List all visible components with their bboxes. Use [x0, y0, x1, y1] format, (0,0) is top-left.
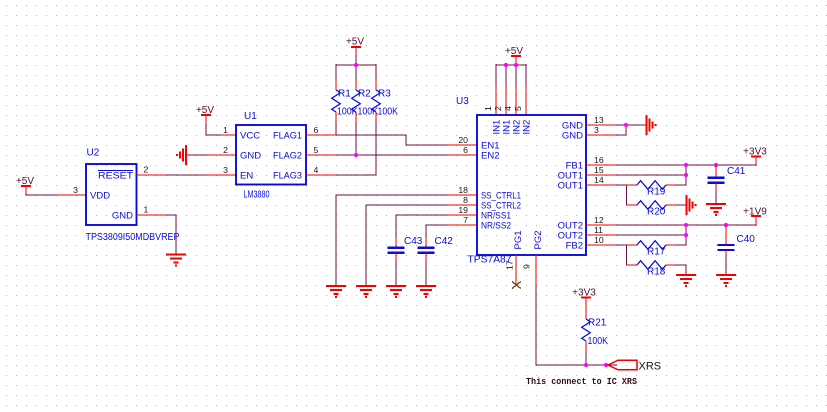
svg-text:R2: R2	[358, 89, 371, 100]
power +5V P3 (R1-R3 bus)	[346, 37, 364, 57]
junction XRS tap	[604, 363, 608, 367]
svg-text:OUT1: OUT1	[558, 180, 583, 191]
U3 PG1 pin17 stub	[515, 255, 517, 285]
svg-text:4: 4	[314, 165, 319, 175]
svg-text:GND: GND	[112, 210, 133, 221]
ground right-pointing (R20)	[687, 195, 696, 215]
svg-text:5: 5	[513, 106, 523, 111]
op-amp U1 LM3880 box	[236, 111, 306, 201]
svg-text:100K: 100K	[588, 336, 609, 347]
wire SS_CTRL2 pin8 to ground	[366, 205, 477, 286]
svg-text:R20: R20	[647, 207, 666, 218]
junction C40 tap	[724, 223, 728, 227]
wire OUT1 pin14 to R19	[586, 184, 628, 186]
wire SS_CTRL1 pin18 to ground	[336, 195, 477, 286]
svg-text:R18: R18	[647, 267, 666, 278]
svg-text:6: 6	[314, 125, 319, 135]
svg-text:3: 3	[594, 125, 599, 135]
resistor R20	[627, 201, 677, 218]
wire OUT2 pin11	[586, 234, 686, 236]
junction IN bus b	[514, 63, 518, 67]
junction OUT2 b	[684, 233, 688, 237]
svg-text:2: 2	[223, 145, 228, 155]
svg-text:This connect to IC XRS: This connect to IC XRS	[526, 377, 637, 387]
ground (SS_CTRL2)	[356, 286, 376, 297]
resistor R21	[582, 318, 609, 353]
svg-text:18: 18	[458, 185, 468, 195]
svg-text:17: 17	[505, 260, 515, 270]
wire OUT2 pin12 to +1V9 rail	[586, 224, 756, 226]
resistor R19	[627, 181, 677, 198]
wire +5V bus to U3 IN pins	[496, 64, 526, 85]
capacitor C43	[388, 236, 423, 261]
svg-text:8: 8	[463, 195, 468, 205]
off-page connector XRS	[608, 360, 661, 372]
power +5V P2 (U1 VCC)	[196, 105, 214, 125]
svg-text:R3: R3	[378, 89, 391, 100]
svg-text:19: 19	[458, 205, 468, 215]
svg-text:IN2: IN2	[522, 120, 533, 135]
wire R18 right to ground	[676, 265, 686, 275]
svg-text:C40: C40	[737, 234, 756, 245]
wire C42 to ground	[425, 261, 427, 287]
wire FB2 pin10 to R17	[586, 244, 628, 246]
ground (R18)	[676, 275, 696, 286]
wire FB1 pin16 to +3V3 rail	[586, 164, 756, 166]
ground right-pointing (U3 GND)	[647, 115, 656, 135]
svg-text:C41: C41	[727, 166, 746, 177]
svg-text:+5V: +5V	[346, 37, 364, 48]
svg-text:16: 16	[594, 155, 604, 165]
resistor R17	[627, 241, 677, 258]
ground (U2 GND)	[166, 255, 186, 266]
capacitor C42	[418, 236, 454, 261]
wire NR/SS1 pin19 to C43	[396, 215, 477, 238]
svg-text:VCC: VCC	[240, 130, 260, 141]
power +5V P4 (U3 IN bus)	[505, 46, 523, 65]
ground left-pointing (U1 GND)	[177, 145, 186, 165]
no-connect X on PG1	[512, 282, 521, 289]
junction IN bus a	[504, 63, 508, 67]
wire R20 right to ground	[676, 204, 686, 206]
capacitor C41	[708, 165, 746, 191]
junction GND net	[624, 123, 628, 127]
svg-text:EN2: EN2	[481, 150, 499, 161]
svg-text:100K: 100K	[378, 107, 399, 118]
wire C41 to ground	[715, 191, 717, 205]
capacitor C40	[718, 225, 756, 258]
svg-text:R17: R17	[647, 247, 666, 258]
svg-text:EN: EN	[240, 170, 253, 181]
wire R17 right to OUT2 node	[676, 225, 686, 245]
junction FB1/OUT1 b	[684, 173, 688, 177]
svg-text:FLAG2: FLAG2	[273, 150, 302, 161]
wire OUT1 pin15	[586, 174, 686, 176]
ground (C42)	[416, 286, 436, 297]
svg-text:10: 10	[594, 235, 604, 245]
power +3V3 (R21)	[572, 288, 596, 320]
resistor R2	[352, 80, 379, 122]
wire R17 left down to R18	[626, 245, 628, 265]
svg-text:1: 1	[144, 205, 149, 215]
svg-text:100K: 100K	[337, 107, 358, 118]
wire FLAG3 pin4 to R3	[306, 122, 376, 176]
svg-text:R21: R21	[588, 318, 607, 329]
svg-text:9: 9	[522, 264, 532, 269]
svg-text:12: 12	[594, 215, 604, 225]
svg-text:RESET: RESET	[98, 170, 133, 181]
wire U2 GND pin1 down to ground	[137, 215, 177, 254]
svg-text:2: 2	[493, 106, 503, 111]
ground (SS_CTRL1)	[326, 286, 346, 297]
svg-text:7: 7	[463, 215, 468, 225]
regulator U3 TPS7A87 box	[456, 96, 586, 266]
resistor R1	[332, 80, 358, 122]
resistor R18	[627, 261, 677, 278]
wire +5V to U1 VCC pin 1	[206, 124, 236, 135]
wire C43 to ground	[395, 261, 397, 287]
junction R21/PG2	[584, 363, 588, 367]
svg-text:C42: C42	[435, 236, 454, 247]
U2 TPS3809I50MDBVREP	[86, 148, 180, 244]
svg-text:GND: GND	[562, 130, 583, 141]
svg-text:13: 13	[594, 115, 604, 125]
svg-text:R19: R19	[647, 187, 666, 198]
svg-text:PG2: PG2	[533, 230, 544, 249]
svg-text:U2: U2	[87, 148, 100, 159]
ground (C40)	[716, 275, 736, 286]
svg-text:1: 1	[223, 125, 228, 135]
wire NR/SS2 pin7 to C42	[426, 225, 477, 238]
svg-text:15: 15	[594, 165, 604, 175]
svg-text:FB2: FB2	[566, 240, 583, 251]
svg-text:LM3880: LM3880	[244, 190, 270, 201]
svg-text:4: 4	[503, 106, 513, 111]
svg-text:C43: C43	[404, 236, 423, 247]
wire +5V to U2 VDD pin 3	[26, 193, 86, 195]
svg-text:14: 14	[594, 175, 604, 185]
junction FB1/OUT1 a	[684, 163, 688, 167]
wire U2 RESET pin2 to U1 EN pin3	[137, 174, 237, 176]
resistor R3	[372, 80, 399, 122]
U3 top pin stubs 1 2 4 5	[496, 85, 526, 115]
wire ground to U1 GND pin 2	[187, 154, 236, 156]
wire PG2 pin9 to XRS	[536, 255, 617, 365]
junction R2 FLAG2 EN2	[354, 153, 358, 157]
svg-text:FLAG3: FLAG3	[273, 170, 302, 181]
svg-text:XRS: XRS	[639, 361, 662, 373]
power +1V9 (OUT2 rail)	[743, 207, 767, 226]
junction OUT2 a	[684, 223, 688, 227]
wire R19 right to FB1 node	[676, 165, 686, 185]
svg-text:3: 3	[73, 185, 78, 195]
wire FLAG1 pin6 to R1 and EN1	[306, 122, 477, 146]
svg-text:FLAG1: FLAG1	[273, 130, 302, 141]
svg-text:GND: GND	[240, 150, 261, 161]
svg-text:VDD: VDD	[90, 190, 110, 201]
wire R19 left down to R20	[626, 185, 628, 205]
ground (C41)	[706, 204, 726, 215]
wire U3 GND pins 13 and 3 to ground	[586, 125, 646, 135]
svg-text:20: 20	[458, 135, 468, 145]
svg-text:6: 6	[463, 145, 468, 155]
wire FLAG2 pin5 to R2 and EN2	[306, 122, 477, 156]
wire +5V bus to R1 R2 R3 tops	[336, 56, 376, 81]
power +3V3 (OUT1 rail)	[743, 147, 767, 166]
svg-text:U1: U1	[244, 111, 257, 122]
svg-text:R1: R1	[338, 89, 351, 100]
wire R21 bottom to PG2 net	[585, 352, 587, 366]
svg-text:TPS3809I50MDBVREP: TPS3809I50MDBVREP	[86, 232, 180, 243]
svg-text:U3: U3	[456, 96, 469, 107]
junction bus +5V	[354, 63, 358, 67]
svg-text:2: 2	[144, 165, 149, 175]
ground (C43)	[386, 286, 406, 297]
junction C41 tap	[714, 163, 718, 167]
svg-text:1: 1	[483, 106, 493, 111]
svg-text:11: 11	[594, 225, 603, 235]
svg-text:PG1: PG1	[513, 230, 524, 249]
power +5V P1 (left, U2 VDD)	[16, 176, 34, 194]
svg-text:NR/SS2: NR/SS2	[481, 220, 511, 231]
svg-text:3: 3	[223, 165, 228, 175]
svg-text:5: 5	[314, 145, 319, 155]
wire C40 to ground	[725, 258, 727, 276]
